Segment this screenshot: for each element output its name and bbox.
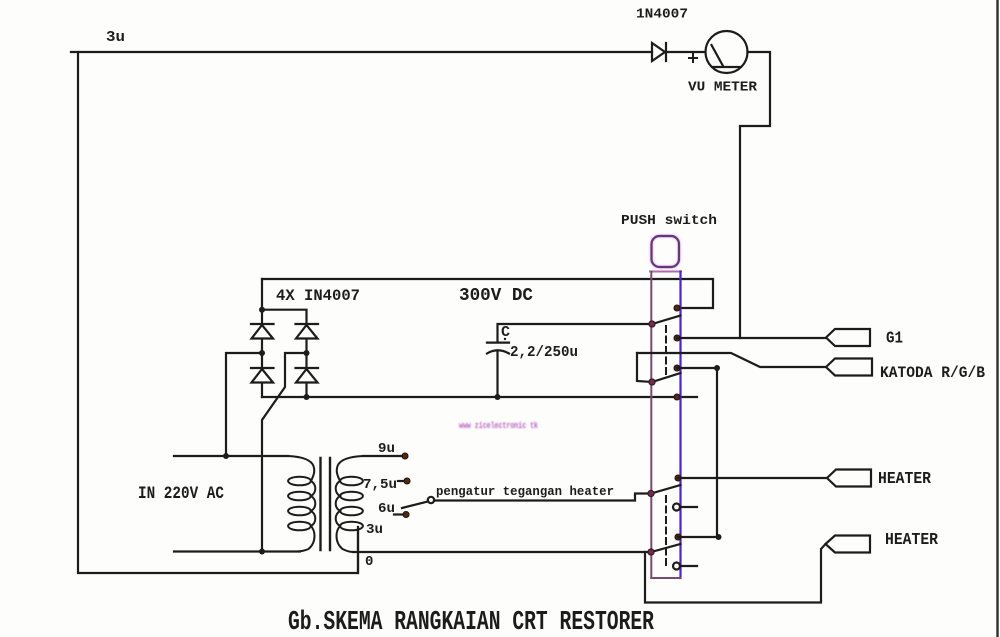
diode D4 (bridge bottom-right) <box>296 353 319 397</box>
transformer T1 core <box>321 458 331 550</box>
wire 6v tap dash <box>394 513 402 515</box>
label 9v <box>378 441 395 457</box>
svg-text:IN 220V AC: IN 220V AC <box>138 484 224 504</box>
capacitor C label <box>501 324 510 341</box>
wire G1 <box>677 337 826 339</box>
wire 3v tap down to bottom-left rail <box>357 530 359 573</box>
wire top 3v rail to diode <box>71 51 652 53</box>
wire 9v tap <box>363 455 403 457</box>
node lever 4 pivot dot <box>648 549 654 555</box>
svg-text:Gb.SKEMA RANGKAIAN CRT RESTORE: Gb.SKEMA RANGKAIAN CRT RESTORER <box>288 608 655 637</box>
svg-text:KATODA R/G/B: KATODA R/G/B <box>880 364 985 382</box>
svg-text:7,5u: 7,5u <box>363 477 397 493</box>
wire diode to VU meter <box>666 51 705 53</box>
wire 7,5v tap dash <box>398 480 403 482</box>
potentiometer wiper arm to 6v <box>402 502 428 509</box>
switch lever 2 <box>652 373 681 382</box>
meter plus sign <box>689 54 697 62</box>
svg-text:4X IN4007: 4X IN4007 <box>276 287 360 305</box>
node switch contact heater2 <box>675 534 681 540</box>
svg-text:G1: G1 <box>886 329 903 348</box>
border right edge line <box>996 0 998 637</box>
svg-text:6u: 6u <box>378 501 395 517</box>
label HEATER lower <box>885 531 939 550</box>
node switch contact bottom rail <box>674 394 680 400</box>
node heater2 corner junction <box>716 534 722 540</box>
node switch contact katoda <box>674 365 680 371</box>
transformer T1 primary top rail <box>174 455 288 457</box>
label KATODA R/G/B <box>880 364 985 382</box>
switch lever 1 <box>652 316 681 325</box>
connector HEATER upper <box>827 470 871 487</box>
switch dashed link lower <box>665 496 667 566</box>
4X IN4007 label <box>276 287 360 305</box>
push switch shaft top bar <box>650 271 681 273</box>
wire katoda junction drop <box>677 368 717 537</box>
wire bridge bottom DC- rail <box>262 396 697 398</box>
diode D2 (bridge top-right) <box>296 324 319 353</box>
VU METER label <box>688 81 758 96</box>
capacitor C1 plates <box>487 343 509 397</box>
svg-text:9u: 9u <box>378 441 395 457</box>
svg-text:pengatur tegangan heater: pengatur tegangan heater <box>436 484 614 499</box>
capacitor polarity dot <box>504 338 506 340</box>
label G1 <box>886 329 903 348</box>
push switch button cap <box>652 236 680 267</box>
wire wiper to switch <box>434 494 651 501</box>
node switch contact heater1 <box>675 475 681 481</box>
wire VU meter to right drop <box>740 52 770 338</box>
node 7,5v tap dot <box>404 478 410 484</box>
node capacitor bottom junction <box>495 394 501 400</box>
wire capacitor top feed <box>498 324 653 342</box>
IN 220V AC label <box>138 484 224 504</box>
switch lever 4 <box>651 544 681 552</box>
transformer T1 secondary winding <box>336 456 363 552</box>
watermark www zicelectronic <box>459 421 538 431</box>
switch NC contact c1 <box>673 504 697 511</box>
svg-text:2,2/250u: 2,2/250u <box>510 345 578 361</box>
svg-text:www zicelectronic tk: www zicelectronic tk <box>459 421 538 431</box>
node primary bottom junction <box>259 549 265 555</box>
connector HEATER lower <box>826 536 871 553</box>
node switch contact top (300V) <box>674 305 680 311</box>
push switch shaft left rail <box>650 272 652 579</box>
diode D5 1N4007 label <box>636 7 688 23</box>
capacitor value label 2,2/250v <box>510 345 578 361</box>
diode D3 (bridge bottom-left) <box>251 353 274 397</box>
wire bridge AC right jog to transformer primary bottom <box>262 353 307 552</box>
potentiometer wiper contact <box>428 497 434 503</box>
push switch shaft right rail <box>679 272 681 579</box>
label HEATER upper <box>878 470 932 489</box>
svg-text:3u: 3u <box>366 522 383 538</box>
300V DC label <box>459 286 533 306</box>
svg-text:HEATER: HEATER <box>885 531 939 550</box>
wire 300V DC rail <box>262 279 713 308</box>
node 9v tap dot <box>402 453 408 459</box>
svg-text:1N4007: 1N4007 <box>636 7 688 23</box>
svg-text:VU METER: VU METER <box>688 81 758 96</box>
node lever 3 pivot dot <box>648 490 654 496</box>
connector G1 <box>826 329 870 346</box>
connector KATODA <box>826 359 872 376</box>
node switch contact G1 <box>674 335 680 341</box>
switch dashed link upper <box>665 326 667 375</box>
VU meter M1 <box>706 31 748 73</box>
label 3v <box>366 522 383 538</box>
label pengatur tegangan heater <box>436 484 614 499</box>
wire katoda top run <box>637 353 826 367</box>
node bridge right mid junction <box>304 350 310 356</box>
diode D1 (bridge top-left) <box>251 310 274 353</box>
svg-text:3u: 3u <box>106 29 125 46</box>
wire bridge top tie <box>262 279 307 324</box>
node bridge left mid junction <box>259 350 265 356</box>
node 6v tap dot <box>403 512 409 518</box>
label 6v <box>378 501 395 517</box>
switch lever 3 <box>651 485 681 494</box>
node bridge top junction <box>259 307 265 313</box>
transformer T1 primary winding <box>288 456 315 552</box>
wire heater1 <box>678 477 827 479</box>
svg-text:300V DC: 300V DC <box>459 286 533 306</box>
wire left 3v rail down <box>78 52 358 573</box>
node 3v label top-left <box>106 29 125 46</box>
label 7,5v <box>363 477 397 493</box>
title Gb.SKEMA RANGKAIAN CRT RESTORER <box>288 608 655 637</box>
node primary top junction <box>223 453 229 459</box>
push switch shaft bottom bar <box>651 577 680 579</box>
node lever 1 pivot dot <box>649 321 655 327</box>
label 0 <box>365 554 373 570</box>
node lever 2 pivot dot <box>649 379 655 385</box>
wire heater2 to corner junction <box>678 536 719 538</box>
wire heater2 lower loop <box>645 544 826 603</box>
svg-text:0: 0 <box>365 554 373 570</box>
transformer T1 primary bottom rail <box>174 550 300 552</box>
switch NC contact c2 <box>673 563 697 570</box>
wire bridge AC left to transformer primary top <box>226 353 262 456</box>
node bridge bottom-right junction <box>304 394 310 400</box>
wire katoda box <box>637 353 652 382</box>
wire 0 tap to switch <box>353 551 651 553</box>
svg-text:PUSH switch: PUSH switch <box>621 213 717 229</box>
node katoda drop corner junction <box>714 365 720 371</box>
PUSH switch label <box>621 213 717 229</box>
svg-text:HEATER: HEATER <box>878 470 932 489</box>
diode D5 1N4007 <box>652 43 666 61</box>
